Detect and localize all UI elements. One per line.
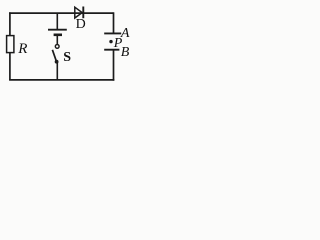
wire battery branch upper <box>56 13 58 30</box>
wire switch to bottom <box>56 63 58 80</box>
wire bottom <box>9 79 114 81</box>
switch S upper contact <box>55 45 59 49</box>
switch S lever (open) <box>52 50 56 60</box>
capacitor plate B (bottom) <box>104 49 119 51</box>
resistor R (box) <box>7 36 14 53</box>
wire right upper (to plate A) <box>113 12 115 33</box>
wire battery to switch <box>56 35 58 45</box>
wire top (node between R, battery branch and diode) <box>9 12 113 14</box>
battery negative plate (short bar) <box>54 33 62 36</box>
svg-text:S: S <box>63 50 71 65</box>
diode D triangle (anode left, pointing right) <box>75 7 82 18</box>
battery positive plate (long bar) <box>48 29 67 31</box>
diode D cathode bar <box>82 7 84 19</box>
switch S lower contact <box>55 60 59 64</box>
charged particle P (dot) <box>109 40 112 43</box>
wire left <box>9 12 11 80</box>
wire right lower (from plate B) <box>113 50 115 81</box>
capacitor plate A (top) <box>104 32 121 34</box>
svg-text:R: R <box>17 41 27 57</box>
svg-text:D: D <box>76 17 86 32</box>
svg-text:B: B <box>121 45 130 60</box>
